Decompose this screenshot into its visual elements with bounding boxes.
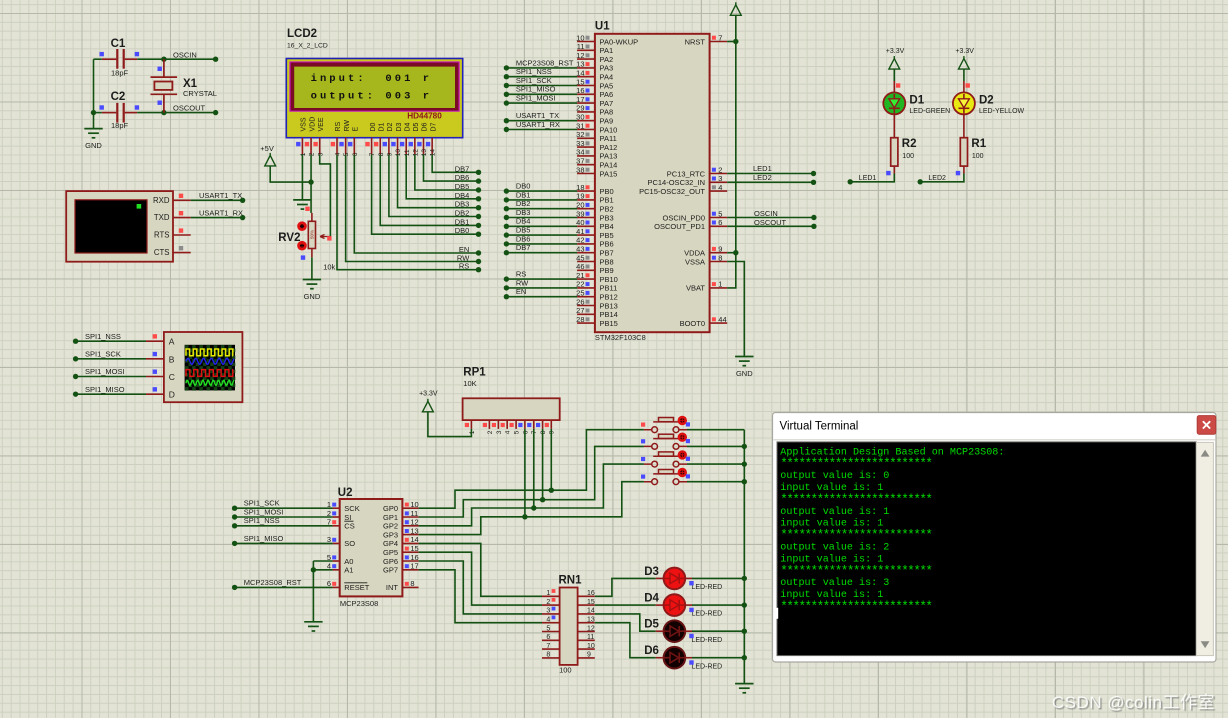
svg-text:11: 11 <box>404 149 411 156</box>
VT1 TXD square <box>179 211 183 215</box>
svg-text:D: D <box>169 390 175 400</box>
push button SW1 <box>644 418 687 433</box>
svg-text:NRST: NRST <box>685 37 706 46</box>
svg-text:PA10: PA10 <box>600 125 618 134</box>
svg-text:13: 13 <box>410 526 418 535</box>
svg-text:5: 5 <box>514 430 521 434</box>
oscilloscope pin stub B <box>146 358 164 360</box>
ground GND (C1/C2) <box>84 129 102 138</box>
push button SW3 <box>644 452 687 467</box>
svg-text:DB5: DB5 <box>455 182 470 191</box>
wire DB1 (U1) <box>506 199 577 201</box>
svg-text:31: 31 <box>576 121 584 130</box>
svg-text:22: 22 <box>576 280 584 289</box>
svg-text:MCP23S08_RST: MCP23S08_RST <box>244 578 302 587</box>
wire GP0 to button 1 <box>419 430 644 509</box>
ground (U2 A0/A1) <box>304 622 322 631</box>
virtual terminal screen <box>75 200 147 253</box>
svg-text:3: 3 <box>546 608 550 615</box>
RN1 pin 1 <box>542 595 560 597</box>
svg-text:46: 46 <box>576 262 584 271</box>
svg-text:PB13: PB13 <box>600 301 618 310</box>
wire EN (U1) <box>506 296 577 298</box>
wire +5V to VDD <box>270 166 311 182</box>
svg-text:GND: GND <box>304 292 321 301</box>
svg-text:EN: EN <box>516 287 526 296</box>
LCD2 pin square 10 <box>391 142 395 146</box>
LCD2 pin square 14 <box>426 142 430 146</box>
svg-text:13: 13 <box>576 60 584 69</box>
svg-text:D4: D4 <box>404 122 411 131</box>
svg-text:9: 9 <box>587 652 591 659</box>
svg-text:5: 5 <box>343 152 350 156</box>
svg-text:13: 13 <box>587 617 595 624</box>
svg-text:*************************: ************************* <box>780 457 932 471</box>
SW2 right square <box>686 439 690 443</box>
svg-text:PB15: PB15 <box>600 319 618 328</box>
wire RP1 pin7 pull-up <box>533 429 535 508</box>
junction rail D4 <box>742 602 747 607</box>
wire +3.3V rail to VBAT <box>727 15 736 288</box>
svg-text:RS: RS <box>459 262 469 271</box>
svg-text:13: 13 <box>421 149 428 157</box>
svg-text:*************************: ************************* <box>780 564 932 578</box>
svg-text:RTS: RTS <box>154 231 169 240</box>
LED D5 LED-RED <box>664 620 686 642</box>
SW1 right square <box>686 422 690 426</box>
svg-text:PB1: PB1 <box>600 196 614 205</box>
wire GP5 to RN1 pin2 <box>419 552 542 605</box>
wire GP4 to RN1 pin1 <box>419 543 542 596</box>
junction C2 corner <box>91 110 96 115</box>
wire LCD DB6 <box>424 155 479 182</box>
svg-text:1: 1 <box>469 430 476 434</box>
svg-text:20: 20 <box>576 201 584 210</box>
wire SPI1_NSS <box>76 340 146 342</box>
svg-text:SI: SI <box>344 513 351 522</box>
svg-text:C2: C2 <box>111 91 126 103</box>
Virtual Terminal console area <box>777 442 1196 656</box>
svg-text:8: 8 <box>540 430 547 434</box>
node SPI1_NSS endpoint (U1) <box>504 74 509 79</box>
RV2 up knob <box>297 221 307 231</box>
svg-text:LED1: LED1 <box>753 164 772 173</box>
svg-text:17: 17 <box>410 562 418 571</box>
resistor R1 <box>960 138 967 166</box>
wire LCD DB3 <box>398 155 479 208</box>
node USART1_TX endpoint <box>240 198 245 203</box>
oscilloscope trace A yellow square wave <box>186 349 233 356</box>
svg-text:output: 003 r: output: 003 r <box>311 91 433 103</box>
svg-text:PA2: PA2 <box>600 55 614 64</box>
svg-text:100: 100 <box>972 153 984 160</box>
svg-text:X1: X1 <box>183 78 198 90</box>
svg-text:29: 29 <box>576 104 584 113</box>
svg-text:1: 1 <box>718 280 722 289</box>
svg-text:4: 4 <box>505 430 512 434</box>
LCD2 pin square 6 <box>348 142 352 146</box>
RP1 pin 1 <box>470 420 472 429</box>
RN1 pin 6 <box>542 639 560 641</box>
svg-text:10: 10 <box>410 500 418 509</box>
node SPI1_NSS endpoint (U2) <box>232 523 237 528</box>
LCD2 pin square 2 <box>305 142 309 146</box>
wire VSSA to ground <box>727 262 744 357</box>
power +3.3V <box>889 56 900 69</box>
junction OSCIN/X1 top <box>161 57 166 62</box>
wire RP1 pin6 pull-up <box>524 429 526 517</box>
svg-text:VBAT: VBAT <box>686 284 705 293</box>
svg-text:DB0: DB0 <box>455 226 470 235</box>
oscilloscope trace C red square wave <box>186 370 233 377</box>
svg-text:8: 8 <box>718 253 722 262</box>
RP1 pin 5 <box>515 420 517 429</box>
svg-text:USART1_RX: USART1_RX <box>199 208 243 217</box>
svg-text:11: 11 <box>587 634 594 641</box>
wire RP1 pin1 to +3.3V <box>428 412 472 437</box>
junction RP1.9/GP0 <box>549 488 554 493</box>
square SPI1_MOSI <box>153 370 157 374</box>
capacitor C1 <box>102 49 137 69</box>
R1 bottom pin <box>963 166 965 173</box>
wire D4 to rail <box>692 604 744 606</box>
wire MCP23S08_RST (U2) <box>235 586 333 588</box>
svg-text:DB1: DB1 <box>455 217 470 226</box>
svg-text:MCP23S08_RST: MCP23S08_RST <box>516 58 574 67</box>
IC U2 MCP23S08 body <box>340 499 403 596</box>
svg-text:Virtual Terminal: Virtual Terminal <box>780 421 859 433</box>
svg-text:40: 40 <box>576 218 584 227</box>
SW4 right square <box>686 474 690 478</box>
node OSCIN wire <box>137 58 215 60</box>
node DB1 endpoint <box>476 223 481 228</box>
svg-text:+5V: +5V <box>260 144 274 153</box>
svg-text:PA0-WKUP: PA0-WKUP <box>600 37 639 46</box>
RP1 pin 9 <box>550 420 552 429</box>
wire VDDA to rail <box>727 252 736 254</box>
svg-text:RESET: RESET <box>344 583 369 592</box>
svg-text:SPI1_NSS: SPI1_NSS <box>516 67 552 76</box>
wire +3.3V to D1 <box>893 69 895 81</box>
LCD2 pin square 11 <box>400 142 404 146</box>
svg-text:CTS: CTS <box>154 248 170 257</box>
node DB3 endpoint (U1) <box>504 215 509 220</box>
svg-text:PB4: PB4 <box>600 222 614 231</box>
svg-text:B: B <box>169 354 175 364</box>
node EN endpoint <box>476 250 481 255</box>
svg-text:U1: U1 <box>595 21 610 33</box>
node DB0 endpoint <box>476 232 481 237</box>
svg-text:LED-YELLOW: LED-YELLOW <box>979 108 1025 115</box>
SW4 left square <box>641 475 645 479</box>
oscilloscope screen <box>185 345 235 391</box>
node DB4 endpoint (U1) <box>504 224 509 229</box>
svg-text:16: 16 <box>576 86 584 95</box>
wire DB4 (U1) <box>506 225 577 227</box>
RV2 top pin square <box>305 207 309 211</box>
svg-text:37: 37 <box>576 157 584 166</box>
junction rail SW3 <box>742 461 747 466</box>
svg-text:5: 5 <box>546 625 550 632</box>
node SPI1_MOSI endpoint <box>73 374 78 379</box>
LCD2 pin stub 7 <box>371 138 373 155</box>
D5 cathode pin <box>685 630 692 632</box>
wire LCD VEE to RV2 wiper <box>320 155 331 237</box>
svg-text:output value is: 2: output value is: 2 <box>780 542 889 554</box>
svg-text:DB3: DB3 <box>455 200 470 209</box>
node LED1 endpoint <box>848 179 853 184</box>
svg-text:2: 2 <box>487 430 494 434</box>
node DB5 endpoint <box>476 187 481 192</box>
svg-text:R2: R2 <box>902 138 917 150</box>
RN1 pin 4 <box>542 622 560 624</box>
svg-text:PA13: PA13 <box>600 152 618 161</box>
square SPI1_NSS <box>153 334 157 338</box>
svg-text:43: 43 <box>576 245 584 254</box>
svg-text:D1: D1 <box>378 122 385 131</box>
node SPI1_SCK endpoint <box>73 356 78 361</box>
wire USART1_RX (U1) <box>506 129 577 131</box>
svg-text:45: 45 <box>576 253 584 262</box>
D6 cathode square <box>689 660 693 664</box>
wire SPI1_SCK (U2) <box>235 507 333 509</box>
svg-text:PB7: PB7 <box>600 249 614 258</box>
node LED1 endpoint (U1) <box>811 171 816 176</box>
svg-text:OSCOUT: OSCOUT <box>173 103 206 112</box>
svg-text:10k: 10k <box>323 263 335 272</box>
LCD2 pin stub 10 <box>397 138 399 155</box>
LCD2 pin square 12 <box>409 142 413 146</box>
svg-text:9: 9 <box>549 430 556 434</box>
junction rail D6 <box>742 655 747 660</box>
junction RP1.7/GP2 <box>531 505 536 510</box>
oscilloscope body <box>164 332 243 402</box>
LCD2 pin square 9 <box>383 142 387 146</box>
svg-text:PA11: PA11 <box>600 134 617 143</box>
svg-text:27: 27 <box>576 306 584 315</box>
wire LCD EN <box>354 155 478 253</box>
svg-text:8: 8 <box>378 152 385 156</box>
wire GP6 to RN1 pin3 <box>419 561 542 614</box>
virtual terminal cursor block <box>137 204 142 209</box>
wire RN1.13 to D6 <box>595 623 656 658</box>
junction VDD/+5V <box>308 179 313 184</box>
svg-text:12: 12 <box>576 51 584 60</box>
svg-text:10: 10 <box>576 33 584 42</box>
wire GP2 to button 3 <box>419 464 644 526</box>
svg-text:VEE: VEE <box>318 117 325 131</box>
svg-text:50%: 50% <box>310 230 315 239</box>
svg-text:SPI1_SCK: SPI1_SCK <box>244 499 280 508</box>
svg-text:LED-RED: LED-RED <box>692 611 723 618</box>
LCD2 pin square 7 <box>365 142 369 146</box>
LCD2 pin stub 6 <box>353 138 355 155</box>
svg-text:10K: 10K <box>463 379 476 388</box>
svg-text:A: A <box>169 337 175 347</box>
Virtual Terminal cursor <box>776 608 778 619</box>
wire SW1 to ground rail <box>687 429 744 431</box>
svg-text:TXD: TXD <box>154 213 170 222</box>
wire LCD RS <box>337 155 479 270</box>
node SPI1_MISO endpoint <box>73 391 78 396</box>
svg-text:SPI1_NSS: SPI1_NSS <box>244 516 280 525</box>
Virtual Terminal close button <box>1197 416 1216 435</box>
svg-text:DB7: DB7 <box>455 164 470 173</box>
LED D1 LED-GREEN <box>883 92 905 114</box>
svg-text:GP1: GP1 <box>383 513 398 522</box>
D3 cathode square <box>689 581 693 585</box>
node SPI1_NSS endpoint <box>73 339 78 344</box>
push button SW2 <box>644 434 687 449</box>
LCD2 pin square 5 <box>339 142 343 146</box>
square SPI1_MISO <box>153 387 157 391</box>
svg-text:GP0: GP0 <box>383 504 398 513</box>
svg-text:7: 7 <box>531 430 538 434</box>
wire USART1_TX <box>191 199 243 201</box>
wire SPI1_NSS (U2) <box>235 525 333 527</box>
wire C1 left to rail <box>94 58 102 60</box>
VT1 pin stub RXD <box>173 199 191 201</box>
power +3.3V <box>730 2 741 15</box>
svg-text:11: 11 <box>410 509 418 518</box>
svg-text:LCD2: LCD2 <box>287 28 317 40</box>
svg-text:100: 100 <box>559 666 572 675</box>
svg-text:OSCOUT_PD1: OSCOUT_PD1 <box>654 222 705 231</box>
IC U1 STM32F103C8 body <box>595 34 710 332</box>
wire DB5 (U1) <box>506 234 577 236</box>
node SPI1_MISO endpoint (U2) <box>232 541 237 546</box>
svg-text:PC15-OSC32_OUT: PC15-OSC32_OUT <box>639 187 705 196</box>
D1 anode square <box>896 83 900 87</box>
svg-text:100: 100 <box>902 153 914 160</box>
node LED2 endpoint (U1) <box>811 180 816 185</box>
svg-text:8: 8 <box>546 652 550 659</box>
svg-text:PA7: PA7 <box>600 99 614 108</box>
junction A1 <box>311 567 316 572</box>
push button SW2 knob <box>678 433 687 442</box>
LCD2 pin square 13 <box>417 142 421 146</box>
LCD2 pin stub 11 <box>405 138 407 155</box>
svg-text:30: 30 <box>576 113 584 122</box>
svg-text:PB3: PB3 <box>600 213 614 222</box>
wire R1 to LED2 <box>920 174 964 182</box>
wire DB0 (U1) <box>506 190 577 192</box>
wire rail to ground <box>93 113 95 129</box>
svg-text:LED-GREEN: LED-GREEN <box>909 108 950 115</box>
svg-text:6: 6 <box>352 152 359 156</box>
svg-text:A1: A1 <box>344 566 353 575</box>
svg-text:CS: CS <box>344 522 354 531</box>
svg-text:SPI1_MOSI: SPI1_MOSI <box>244 507 284 516</box>
svg-text:14: 14 <box>587 608 595 615</box>
svg-text:GND: GND <box>85 141 102 150</box>
node SPI1_SCK endpoint (U2) <box>232 506 237 511</box>
svg-text:17: 17 <box>576 95 584 104</box>
oscilloscope pin stub C <box>146 376 164 378</box>
svg-text:LED-RED: LED-RED <box>692 584 723 591</box>
svg-text:3: 3 <box>718 174 722 183</box>
svg-text:14: 14 <box>430 149 437 157</box>
push button SW1 knob <box>678 416 687 425</box>
svg-text:D6: D6 <box>422 122 429 131</box>
capacitor C2 pin squares <box>100 105 104 109</box>
junction VDDA <box>733 250 738 255</box>
svg-text:10: 10 <box>395 149 402 157</box>
wire SPI1_SCK (U1) <box>506 85 577 87</box>
LCD2 pin stub 4 <box>336 138 338 155</box>
wire MCP23S08_RST (U1) <box>506 67 577 69</box>
wire LCD DB4 <box>406 155 478 199</box>
node DB0 endpoint (U1) <box>504 188 509 193</box>
svg-text:DB4: DB4 <box>455 191 470 200</box>
junction rail SW4 <box>742 479 747 484</box>
wire LCD DB1 <box>380 155 478 226</box>
svg-text:28: 28 <box>576 315 584 324</box>
RN1 pin 3 <box>542 613 560 615</box>
svg-text:+3.3V: +3.3V <box>419 391 438 398</box>
D6 cathode pin <box>685 657 692 659</box>
RN1 pin 2 <box>542 604 560 606</box>
svg-text:output value is: 1: output value is: 1 <box>780 506 889 518</box>
svg-text:25: 25 <box>576 289 584 298</box>
R1 bottom square <box>956 171 960 175</box>
svg-text:PA4: PA4 <box>600 73 614 82</box>
svg-text:PC13_RTC: PC13_RTC <box>667 169 706 178</box>
wire D6 to rail <box>692 657 744 659</box>
wire LED2 (U1) <box>727 181 813 183</box>
SW1 left square <box>641 423 645 427</box>
svg-text:SPI1_MOSI: SPI1_MOSI <box>85 367 125 376</box>
wire DB3 (U1) <box>506 217 577 219</box>
svg-text:DB3: DB3 <box>516 208 531 217</box>
svg-text:GP4: GP4 <box>383 539 398 548</box>
svg-text:LED1: LED1 <box>859 175 877 182</box>
wire SPI1_MISO (U1) <box>506 93 577 95</box>
svg-text:DB0: DB0 <box>516 182 531 191</box>
svg-text:SPI1_MISO: SPI1_MISO <box>516 85 556 94</box>
svg-text:PB12: PB12 <box>600 293 618 302</box>
wire +3.3V to D2 <box>963 69 965 81</box>
svg-text:SPI1_MOSI: SPI1_MOSI <box>516 94 556 103</box>
LCD2 outer frame <box>286 59 462 138</box>
svg-text:HD44780: HD44780 <box>407 111 442 120</box>
svg-text:18: 18 <box>576 183 584 192</box>
RN1 pin 9 <box>578 657 595 659</box>
svg-text:SPI1_MISO: SPI1_MISO <box>244 534 284 543</box>
svg-text:PA1: PA1 <box>600 46 614 55</box>
svg-text:VSS: VSS <box>301 117 308 131</box>
wire RV2 to ground <box>311 257 313 279</box>
svg-text:VSSA: VSSA <box>685 257 705 266</box>
wire RN1.15 to D4 <box>595 604 656 606</box>
node DB2 endpoint (U1) <box>504 206 509 211</box>
svg-text:RW: RW <box>457 254 470 263</box>
svg-text:12: 12 <box>412 149 419 157</box>
LCD2 pin stub 14 <box>431 138 433 155</box>
RN1 pin 7 <box>542 648 560 650</box>
svg-text:VDDA: VDDA <box>684 249 705 258</box>
svg-text:32: 32 <box>576 130 584 139</box>
D4 anode pin <box>656 604 664 606</box>
svg-text:SO: SO <box>344 539 355 548</box>
svg-text:PA9: PA9 <box>600 117 614 126</box>
svg-text:PB0: PB0 <box>600 187 614 196</box>
svg-text:OSCIN_PD0: OSCIN_PD0 <box>662 213 705 222</box>
LCD2 pin stub 3 <box>319 138 321 155</box>
svg-text:D1: D1 <box>909 94 924 106</box>
junction rail SW2 <box>742 444 747 449</box>
wire RP1 pin9 pull-up <box>550 429 552 490</box>
